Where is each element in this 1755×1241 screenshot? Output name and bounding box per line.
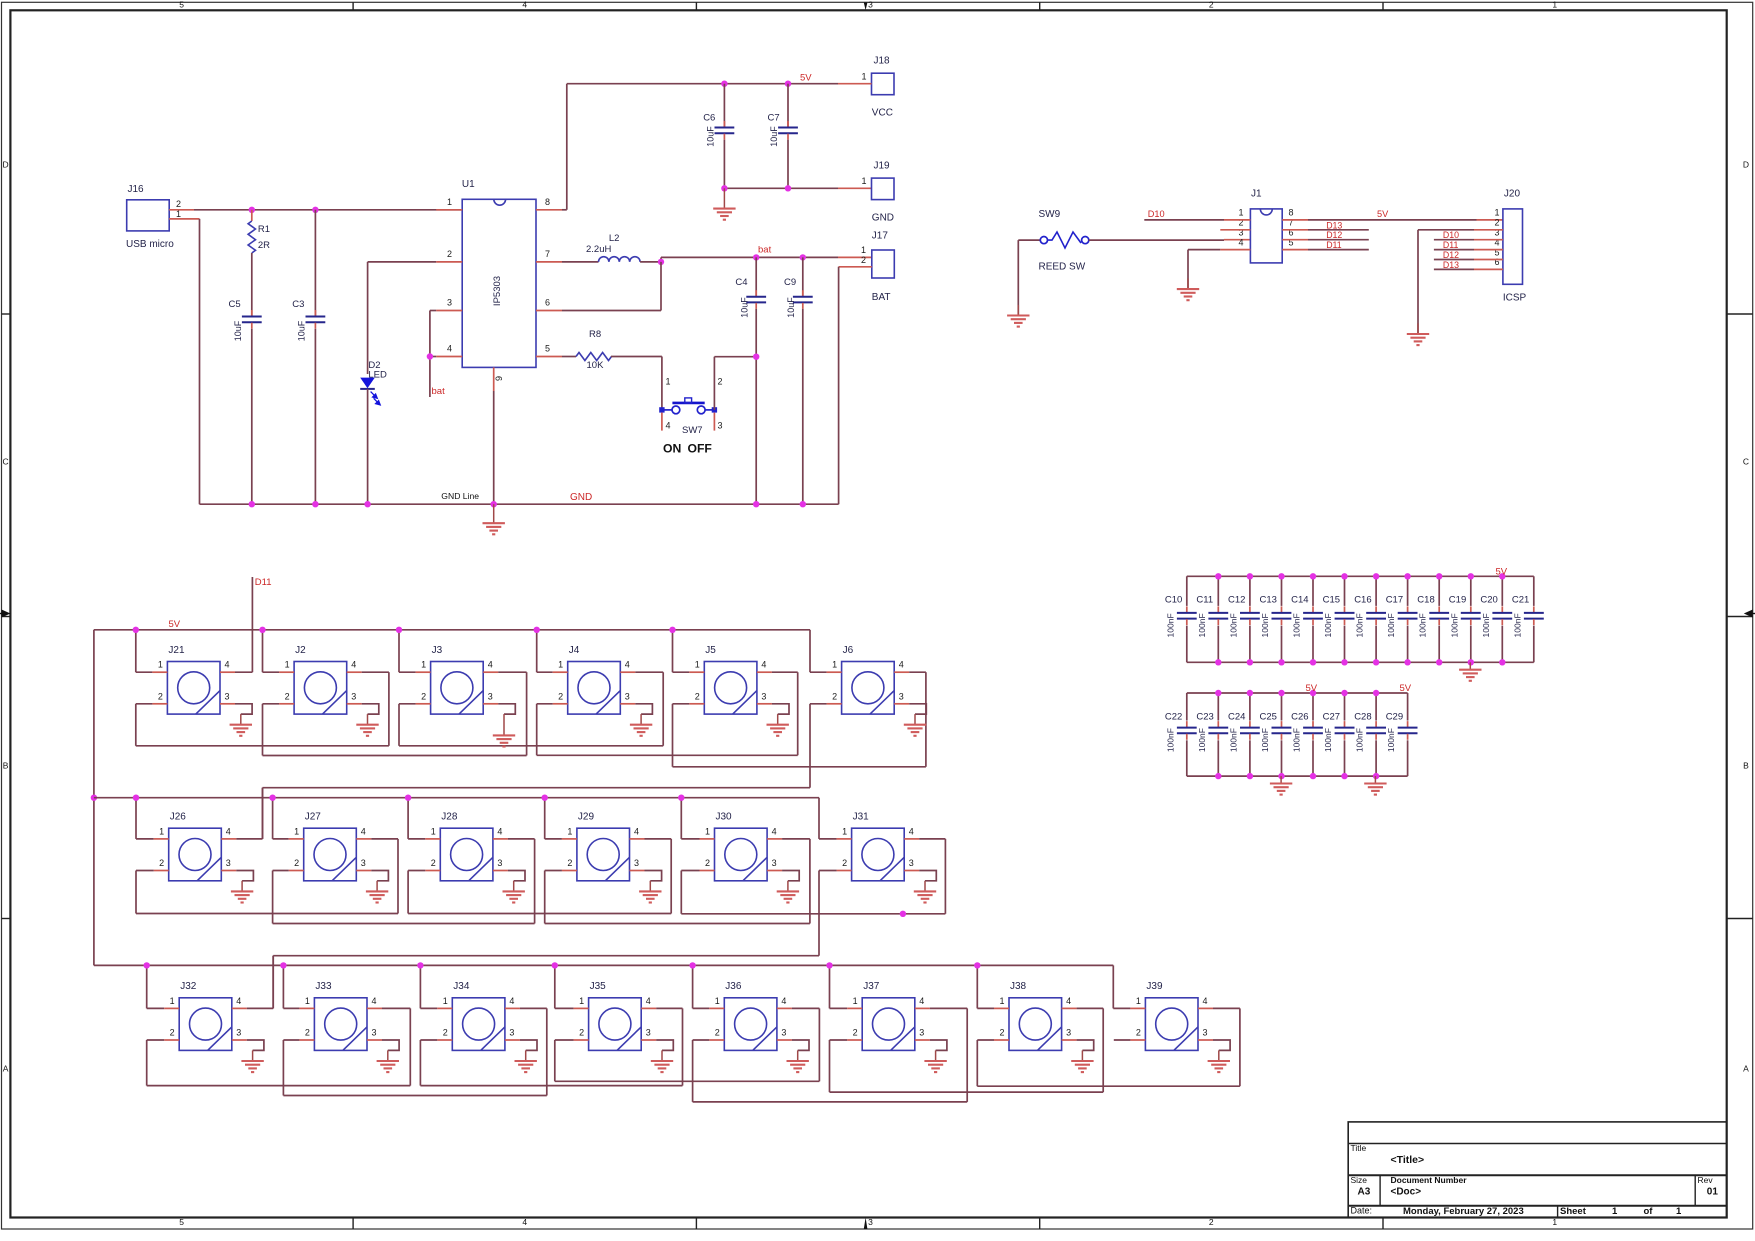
wire J37 pin1 from 5V bus [829, 965, 831, 1008]
junction 5V bus at J5 [669, 627, 675, 633]
svg-text:2: 2 [1494, 218, 1499, 228]
svg-text:3: 3 [868, 0, 873, 9]
wire J31 pin1 from 5V bus [818, 798, 820, 839]
wire J21 DOUT loop [136, 745, 389, 747]
svg-text:2: 2 [1136, 1028, 1141, 1038]
capacitor C11 100nF [1217, 576, 1219, 606]
ground symbol J2 pin3 [367, 714, 369, 725]
svg-text:2: 2 [705, 858, 710, 868]
svg-text:2.2uH: 2.2uH [586, 244, 611, 255]
wire 5V bus row3 [94, 964, 1113, 966]
svg-text:J17: J17 [872, 230, 889, 241]
wire J38 pin1 from 5V bus [976, 965, 978, 1008]
svg-text:R8: R8 [589, 329, 601, 340]
wire J37 pin2 (DOUT) [847, 1039, 862, 1041]
title block frame [1348, 1122, 1727, 1218]
wire J31 DOUT down to J32 DIN [272, 956, 274, 1009]
svg-text:4: 4 [919, 996, 924, 1006]
svg-text:4: 4 [236, 996, 241, 1006]
wire 5V vertical spine (left) [93, 630, 95, 966]
svg-text:1: 1 [861, 176, 866, 186]
ground symbol J27 pin3 [376, 881, 378, 892]
svg-text:SW9: SW9 [1039, 209, 1061, 220]
svg-text:J32: J32 [180, 981, 197, 992]
junction GND rail at U1 pin9 [491, 501, 497, 507]
wire J34 pin4 (DIN) [505, 1007, 520, 1009]
svg-text:1: 1 [1238, 208, 1243, 218]
wire J2 pin4 (DIN) [347, 671, 362, 673]
svg-text:C23: C23 [1196, 711, 1213, 722]
svg-text:100nF: 100nF [1386, 613, 1396, 637]
junction bat at C4 [753, 254, 759, 260]
svg-text:J19: J19 [874, 160, 891, 171]
svg-text:4: 4 [372, 996, 377, 1006]
svg-text:3: 3 [718, 421, 723, 431]
wire J28 pin2 (DOUT) [425, 870, 440, 872]
svg-text:C26: C26 [1291, 711, 1308, 722]
svg-text:100nF: 100nF [1165, 613, 1175, 637]
svg-text:5: 5 [179, 0, 184, 9]
svg-text:4: 4 [1238, 237, 1243, 247]
junction 5V bus at J26 [133, 795, 139, 801]
wire J20 pin2 to ground [1474, 229, 1503, 231]
svg-text:C12: C12 [1228, 595, 1245, 606]
zone ticks left [2, 313, 11, 315]
junction C16 bottom [1373, 659, 1379, 665]
svg-text:J34: J34 [453, 981, 470, 992]
wire J33 pin3 to ground [367, 1039, 382, 1041]
svg-text:2: 2 [567, 858, 572, 868]
svg-text:J28: J28 [441, 812, 458, 823]
ground symbol J34 pin3 [525, 1050, 527, 1061]
svg-text:Date:: Date: [1351, 1206, 1373, 1216]
wire J6 pin2 (DOUT) [827, 703, 842, 705]
svg-text:4: 4 [781, 996, 786, 1006]
svg-text:2R: 2R [258, 240, 270, 251]
inductor L2 2.2uH [562, 261, 599, 263]
junction 5V at C7 [785, 81, 791, 87]
junction on J30 DOUT loop [900, 911, 906, 917]
junction bat at L2 output [658, 259, 664, 265]
svg-text:2: 2 [842, 858, 847, 868]
wire J30 DOUT loop [681, 913, 945, 915]
svg-text:2: 2 [431, 858, 436, 868]
junction 5V at C6 [721, 81, 727, 87]
svg-text:4: 4 [522, 1217, 527, 1227]
junction C19 top [1468, 573, 1474, 579]
wire J36 pin1 from 5V bus [692, 965, 694, 1008]
junction C28 top [1373, 690, 1379, 696]
U1 pin stubs [436, 209, 462, 211]
wire J6 pin4 (DIN) [894, 671, 909, 673]
junction C15 top [1341, 573, 1347, 579]
ground symbol below GND rail [493, 504, 495, 523]
svg-text:01: 01 [1707, 1187, 1719, 1198]
svg-text:100nF: 100nF [1292, 613, 1302, 637]
wire 5V net J1 pin8 to J20 pin1 [1282, 219, 1308, 221]
junction C12 top [1247, 573, 1253, 579]
svg-text:VCC: VCC [872, 107, 893, 118]
wire J4 DOUT loop [537, 754, 798, 756]
ground symbol J30 pin3 [787, 881, 789, 892]
svg-text:3: 3 [919, 1028, 924, 1038]
ground symbol J6 pin3 [914, 714, 916, 725]
wire J33 pin4 (DIN) [367, 1007, 382, 1009]
junction U1 pin4 on bat-sense [427, 353, 433, 359]
svg-text:ON: ON [663, 442, 681, 456]
wire J33 pin1 from 5V bus [282, 965, 284, 1008]
junction C14 top [1310, 573, 1316, 579]
connector J19 GND [872, 178, 895, 200]
svg-text:100nF: 100nF [1260, 728, 1270, 752]
svg-text:Monday, February 27, 2023: Monday, February 27, 2023 [1403, 1206, 1524, 1217]
capacitor C15 100nF [1344, 576, 1346, 606]
svg-text:J2: J2 [295, 645, 306, 656]
ground symbol J37 pin3 [935, 1050, 937, 1061]
svg-text:2: 2 [861, 255, 866, 265]
wire J5 pin3 to ground [757, 703, 772, 705]
wire J32 pin3 to ground [232, 1039, 247, 1041]
svg-text:J38: J38 [1010, 981, 1027, 992]
svg-text:1: 1 [1552, 1217, 1557, 1227]
svg-text:3: 3 [899, 691, 904, 701]
svg-text:J29: J29 [578, 812, 595, 823]
svg-text:J35: J35 [590, 981, 607, 992]
svg-text:10uF: 10uF [786, 297, 796, 318]
svg-text:C: C [3, 457, 9, 467]
capacitor C18 100nF [1438, 576, 1440, 606]
svg-text:4: 4 [226, 826, 231, 836]
junction GND rail at C4 [753, 501, 759, 507]
wire J2 pin1 from 5V bus [262, 630, 264, 672]
junction C17 bottom [1404, 659, 1410, 665]
capacitor C13 100nF [1281, 576, 1283, 606]
capacitor C19 100nF [1470, 576, 1472, 606]
resistor R1 2R [251, 210, 253, 221]
wire J32 pin4 (DIN) [232, 1007, 247, 1009]
svg-text:2: 2 [158, 691, 163, 701]
zone ticks top [352, 2, 354, 10]
wire J3 DOUT loop [399, 745, 663, 747]
svg-text:4: 4 [899, 660, 904, 670]
wire J37 DOUT loop [830, 1091, 1104, 1093]
svg-text:2: 2 [695, 691, 700, 701]
junction C15 bottom [1341, 659, 1347, 665]
svg-text:OFF: OFF [688, 442, 712, 456]
wire SW7 pin2 to C4/GND column [713, 357, 715, 410]
svg-text:6: 6 [545, 297, 550, 307]
wire J29 pin1 from 5V bus [544, 798, 546, 839]
svg-text:C27: C27 [1323, 711, 1340, 722]
svg-text:4: 4 [447, 343, 452, 353]
svg-text:C14: C14 [1291, 595, 1308, 606]
wire J2 pin3 to ground [347, 703, 362, 705]
junction C18 top [1436, 573, 1442, 579]
svg-text:B: B [3, 761, 9, 771]
svg-text:J5: J5 [705, 645, 716, 656]
wire J1 pin2 stub [1220, 229, 1250, 231]
svg-text:4: 4 [772, 826, 777, 836]
connector J1 [1250, 209, 1282, 263]
wire J38 pin4 (DIN) [1062, 1007, 1077, 1009]
wire J6 pin3 to ground [894, 703, 909, 705]
junction 5V bus at J35 [552, 962, 558, 968]
svg-text:100nF: 100nF [1418, 613, 1428, 637]
wire J37 pin3 to ground [915, 1039, 930, 1041]
svg-text:REED SW: REED SW [1039, 261, 1086, 272]
svg-text:U1: U1 [462, 179, 475, 190]
svg-text:1: 1 [1136, 996, 1141, 1006]
svg-text:D13: D13 [1443, 260, 1459, 270]
svg-text:2: 2 [853, 1028, 858, 1038]
svg-text:C16: C16 [1354, 595, 1371, 606]
svg-text:1: 1 [1612, 1206, 1618, 1217]
svg-text:1: 1 [666, 377, 671, 387]
svg-text:4: 4 [361, 826, 366, 836]
svg-text:D: D [3, 160, 9, 170]
junction C23 top [1215, 690, 1221, 696]
svg-text:1: 1 [431, 826, 436, 836]
wire J20 pin5 net D12 [1474, 259, 1503, 261]
svg-text:C15: C15 [1323, 595, 1340, 606]
wire J30 pin3 to ground [767, 870, 782, 872]
junction C27 top [1341, 690, 1347, 696]
wire J1 pin5 net D11 [1282, 249, 1308, 251]
svg-text:A3: A3 [1358, 1187, 1371, 1198]
wire J21 pin1 from 5V bus [135, 630, 137, 672]
svg-text:J1: J1 [1251, 189, 1262, 200]
IC U1 IP5303 [462, 199, 536, 367]
svg-text:BAT: BAT [872, 292, 891, 303]
wire SW9 left leg to ground [1017, 240, 1019, 315]
wire J34 pin2 (DOUT) [437, 1039, 452, 1041]
svg-text:8: 8 [1289, 208, 1294, 218]
wire J4 pin1 from 5V bus [536, 630, 538, 672]
svg-text:3: 3 [625, 691, 630, 701]
svg-text:5V: 5V [1377, 209, 1389, 219]
svg-text:A: A [1743, 1064, 1749, 1074]
svg-text:J21: J21 [168, 645, 185, 656]
svg-text:5V: 5V [1400, 683, 1412, 694]
svg-text:2: 2 [285, 691, 290, 701]
svg-text:J27: J27 [305, 812, 322, 823]
svg-text:1: 1 [1676, 1206, 1682, 1217]
junction on VBUS at R1 [249, 207, 255, 213]
center arrow left [2, 610, 11, 618]
zone ticks right [1727, 313, 1753, 315]
svg-text:Rev: Rev [1698, 1175, 1714, 1185]
svg-text:3: 3 [225, 691, 230, 701]
svg-text:J18: J18 [874, 55, 891, 66]
wire J17 pin2 down to GND rail [839, 266, 872, 268]
svg-text:C19: C19 [1449, 595, 1466, 606]
svg-text:3: 3 [761, 691, 766, 701]
wire J39 pin3 to ground [1198, 1039, 1213, 1041]
svg-text:GND: GND [570, 492, 592, 503]
svg-text:Size: Size [1351, 1175, 1368, 1185]
wire J34 pin1 from 5V bus [419, 965, 421, 1008]
svg-text:2: 2 [558, 691, 563, 701]
connector J20 ICSP [1503, 209, 1523, 284]
wire J28 DOUT loop [408, 913, 671, 915]
svg-text:D12: D12 [1326, 230, 1342, 240]
svg-text:3: 3 [497, 858, 502, 868]
wire net D11 down to J21 pin4 [251, 577, 253, 610]
svg-text:Sheet: Sheet [1560, 1206, 1587, 1217]
svg-text:100nF: 100nF [1355, 613, 1365, 637]
junction C24 bottom [1247, 773, 1253, 779]
cap bank bus top [1187, 575, 1534, 577]
svg-text:D10: D10 [1443, 230, 1459, 240]
wire J20 pin3 net D10 [1474, 239, 1503, 241]
svg-text:J16: J16 [128, 184, 145, 195]
wire J16 pin2 to U1 pin1 (VBUS net) [169, 209, 194, 211]
capacitor C16 100nF [1375, 576, 1377, 606]
svg-text:USB micro: USB micro [126, 239, 174, 250]
svg-text:10K: 10K [587, 360, 605, 371]
svg-text:1: 1 [447, 197, 452, 207]
svg-text:4: 4 [1203, 996, 1208, 1006]
junction 5V spine at row2 bus [91, 795, 97, 801]
ground symbol on cap bank [1469, 662, 1471, 669]
capacitor C7 10uF [787, 84, 789, 127]
junction C26 top [1310, 690, 1316, 696]
wire J21 pin4 (DIN) [220, 671, 235, 673]
wire C6/C7 bottoms to J19 (GND) [724, 187, 838, 189]
ground symbol on cap bank [1374, 776, 1376, 783]
junction 5V bus at J27 [269, 795, 275, 801]
wire J31 DOUT loop [273, 955, 819, 957]
svg-text:2: 2 [832, 691, 837, 701]
capacitor C27 100nF [1344, 693, 1346, 721]
wire J39 pin2 (DOUT) [1130, 1039, 1145, 1041]
svg-text:L2: L2 [609, 233, 620, 244]
wire R8 to SW7 pin1 [661, 357, 663, 410]
svg-text:4: 4 [761, 660, 766, 670]
wire J39 pin1 from 5V bus [1112, 965, 1114, 1008]
svg-text:2: 2 [294, 858, 299, 868]
wire SW9 to J1 pin3 [1089, 239, 1224, 241]
svg-text:IP5303: IP5303 [492, 276, 503, 306]
svg-text:1: 1 [443, 996, 448, 1006]
svg-text:3: 3 [781, 1028, 786, 1038]
junction C13 bottom [1278, 659, 1284, 665]
svg-text:D11: D11 [1443, 240, 1459, 250]
svg-text:J4: J4 [569, 645, 580, 656]
junction 5V bus at J3 [396, 627, 402, 633]
junction C27 bottom [1341, 773, 1347, 779]
svg-text:ICSP: ICSP [1503, 292, 1527, 303]
wire J28 pin4 (DIN) [493, 838, 508, 840]
resistor R8 10K [562, 356, 576, 358]
svg-text:J36: J36 [725, 981, 742, 992]
wire J26 DOUT loop [136, 913, 398, 915]
svg-text:3: 3 [772, 858, 777, 868]
junction C18 bottom [1436, 659, 1442, 665]
svg-text:4: 4 [509, 996, 514, 1006]
wire J38 pin2 (DOUT) [994, 1039, 1009, 1041]
svg-text:D: D [1743, 160, 1749, 170]
wire J3 pin4 (DIN) [483, 671, 498, 673]
wire J35 pin2 (DOUT) [574, 1039, 589, 1041]
zone ticks bottom [352, 1218, 354, 1230]
svg-text:3: 3 [488, 691, 493, 701]
junction C14 bottom [1310, 659, 1316, 665]
svg-text:2: 2 [1209, 0, 1214, 9]
wire J36 pin4 (DIN) [777, 1007, 792, 1009]
capacitor C6 10uF [723, 84, 725, 127]
junction 5V bus at J33 [280, 962, 286, 968]
svg-text:1: 1 [832, 660, 837, 670]
svg-text:1: 1 [558, 660, 563, 670]
svg-text:1: 1 [1552, 0, 1557, 9]
svg-text:1: 1 [176, 209, 181, 219]
svg-text:4: 4 [646, 996, 651, 1006]
wire J29 pin3 to ground [630, 870, 645, 872]
svg-text:2: 2 [718, 377, 723, 387]
svg-text:J30: J30 [716, 812, 733, 823]
wire J4 pin4 (DIN) [620, 671, 635, 673]
svg-text:4: 4 [225, 660, 230, 670]
svg-text:3: 3 [868, 1217, 873, 1227]
svg-text:C20: C20 [1480, 595, 1497, 606]
capacitor C20 100nF [1501, 576, 1503, 606]
junction GND rail at C9 [800, 501, 806, 507]
svg-text:<Title>: <Title> [1391, 1154, 1425, 1166]
svg-text:1: 1 [999, 996, 1004, 1006]
svg-text:5V: 5V [1496, 566, 1508, 577]
svg-text:1: 1 [305, 996, 310, 1006]
svg-text:100nF: 100nF [1386, 728, 1396, 752]
wire J20 pin6 net D13 [1474, 268, 1503, 270]
junction C25 top [1278, 690, 1284, 696]
svg-text:100nF: 100nF [1292, 728, 1302, 752]
ground symbol J5 pin3 [777, 714, 779, 725]
wire J4 pin3 to ground [620, 703, 635, 705]
svg-text:1: 1 [705, 826, 710, 836]
svg-text:R1: R1 [258, 224, 270, 235]
svg-text:J31: J31 [853, 812, 870, 823]
ground symbol below C6 [723, 188, 725, 208]
svg-text:2: 2 [1209, 1217, 1214, 1227]
junction 5V bus at J37 [826, 962, 832, 968]
junction C12 bottom [1247, 659, 1253, 665]
ground symbol below J20 pin2 [1417, 323, 1419, 334]
wire J27 pin2 (DOUT) [289, 870, 304, 872]
capacitor C21 100nF [1533, 576, 1535, 606]
svg-text:C28: C28 [1354, 711, 1371, 722]
svg-text:3: 3 [909, 858, 914, 868]
wire C3 column [314, 210, 316, 316]
ground symbol J21 pin3 [240, 714, 242, 725]
svg-text:2: 2 [715, 1028, 720, 1038]
cap bank bus top [1187, 692, 1408, 694]
junction GND rail at C5 [249, 501, 255, 507]
svg-text:2: 2 [159, 858, 164, 868]
svg-text:bat: bat [432, 386, 446, 397]
svg-text:1: 1 [567, 826, 572, 836]
wire J34 DOUT loop [420, 1085, 682, 1087]
svg-text:bat: bat [758, 244, 772, 255]
center arrow right [1744, 610, 1753, 618]
capacitor C12 100nF [1249, 576, 1251, 606]
svg-text:100nF: 100nF [1260, 613, 1270, 637]
wire J27 pin1 from 5V bus [272, 798, 274, 839]
ground symbol on cap bank [1280, 776, 1282, 783]
svg-text:C9: C9 [784, 277, 796, 288]
svg-text:1: 1 [285, 660, 290, 670]
svg-text:3: 3 [1066, 1028, 1071, 1038]
